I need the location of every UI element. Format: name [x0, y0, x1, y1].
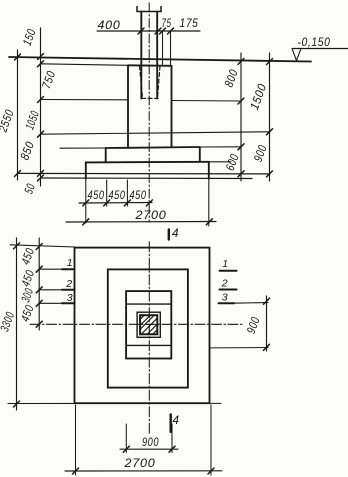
svg-text:1: 1	[222, 258, 229, 270]
extension slab edge down	[85, 179, 87, 223]
2700 dimension line (elevation)	[66, 221, 216, 224]
svg-text:150: 150	[20, 27, 39, 48]
hatching	[141, 316, 144, 319]
svg-text:4: 4	[172, 226, 179, 240]
svg-text:450: 450	[88, 188, 105, 202]
svg-text:900: 900	[251, 143, 270, 164]
plan bottom extension line	[8, 402, 221, 404]
svg-text:600: 600	[223, 152, 242, 173]
extension step2 edge down	[106, 180, 108, 206]
pocket rectangle (plan)	[137, 312, 160, 337]
svg-text:2: 2	[65, 278, 73, 290]
leader line pos 1 left	[39, 268, 62, 270]
plan horizontal axis	[30, 323, 243, 325]
step2 top extension left	[60, 147, 106, 149]
slab right edge	[208, 162, 210, 179]
step2 top extension right	[200, 146, 241, 148]
ground line	[9, 57, 311, 62]
svg-text:1500: 1500	[247, 82, 269, 112]
svg-text:450: 450	[18, 246, 37, 267]
leader line pos 3 right / 900 top extension	[219, 302, 235, 304]
svg-text:3: 3	[67, 292, 74, 304]
svg-text:175: 175	[180, 16, 199, 30]
pedestal right edge	[171, 66, 173, 147]
svg-text:850: 850	[17, 139, 37, 162]
step2 top edge	[106, 147, 200, 148]
leader line pos 3 left	[39, 302, 62, 304]
pocket bottom (dashed)	[142, 97, 159, 99]
svg-text:400: 400	[98, 18, 121, 32]
svg-text:450: 450	[130, 188, 147, 202]
svg-text:900: 900	[142, 435, 159, 449]
svg-text:450: 450	[109, 188, 126, 202]
pocket bottom extension line left	[41, 99, 129, 101]
bedding bottom line	[41, 177, 253, 180]
extension line pedestal edge under 175	[170, 31, 172, 66]
svg-text:2700: 2700	[123, 456, 155, 470]
plan outer rectangle (slab 2700x3300)	[75, 248, 210, 404]
900 right dim bottom extension	[210, 347, 269, 349]
foundation top line	[41, 64, 129, 66]
svg-text:2550: 2550	[0, 107, 17, 134]
900 bottom dimension line	[120, 448, 178, 450]
svg-text:3: 3	[222, 292, 229, 304]
column shaft	[140, 12, 142, 99]
svg-text:1050: 1050	[22, 109, 42, 132]
slab top edge	[86, 161, 209, 164]
left inner dim chain 150/750/1050/850/50	[40, 28, 42, 186]
extension pedestal edge down	[126, 180, 128, 206]
column cross-section hatched square	[140, 315, 157, 334]
2700 bottom dim extensions	[75, 405, 77, 475]
svg-text:900: 900	[244, 315, 263, 336]
svg-text:4: 4	[172, 413, 179, 427]
plan left inner chain 450/450/300/450	[38, 238, 40, 330]
pocket hidden wall right (dashed)	[158, 66, 161, 98]
svg-text:2: 2	[221, 278, 229, 290]
svg-text:450: 450	[18, 303, 37, 324]
extension line pocket wall left of 175	[162, 31, 164, 66]
step2 left edge	[105, 148, 107, 162]
right outer dim chain 1500/900	[269, 53, 271, 181]
svg-text:300: 300	[18, 286, 36, 304]
leader line pos 2 left	[39, 289, 62, 291]
svg-text:50: 50	[21, 182, 38, 196]
svg-text:2700: 2700	[134, 208, 166, 222]
column break line	[137, 7, 161, 12]
svg-text:-0,150: -0,150	[298, 35, 331, 49]
plan vertical axis / section line 4-4	[148, 242, 150, 435]
centerline column axis (elevation)	[148, 3, 150, 222]
dimension line 400/75/175	[97, 30, 200, 32]
svg-text:3300: 3300	[0, 310, 17, 334]
900 right dimension line	[266, 296, 268, 351]
plan pedestal rectangle	[126, 291, 171, 358]
plan top extension line	[10, 245, 75, 247]
900 bottom dim extensions	[125, 424, 127, 453]
slab top extension right	[209, 161, 231, 163]
pocket opening bottom edge (plan)	[126, 344, 171, 346]
svg-text:75: 75	[162, 16, 172, 30]
slab bottom line with extensions	[18, 172, 270, 175]
450x3 dimension line	[79, 202, 152, 205]
long extension line mid (1500/900/850 level)	[41, 132, 270, 134]
step2 right edge	[199, 147, 201, 162]
pocket opening top edge (plan)	[126, 303, 171, 305]
pocket hidden wall left (dashed)	[140, 66, 143, 98]
svg-text:750: 750	[39, 69, 58, 91]
left outer dim chain 2550	[17, 50, 19, 180]
2700 bottom dimension line	[65, 470, 222, 472]
pedestal left edge	[127, 65, 129, 148]
section mark 4 (bottom)	[169, 415, 171, 432]
plan 3300 chain	[16, 238, 18, 410]
svg-text:1: 1	[67, 257, 74, 269]
leader line pos 2 right	[220, 289, 237, 291]
right inner dim chain 800/600	[240, 53, 242, 181]
leader line pos 1 right	[220, 270, 237, 272]
extension slab right edge down	[208, 179, 210, 226]
svg-text:800: 800	[222, 67, 241, 89]
level mark -0,150	[293, 48, 348, 50]
slab left edge	[85, 162, 87, 178]
section mark 4 (top)	[168, 230, 170, 240]
pocket bottom extension line right	[172, 100, 242, 103]
svg-text:450: 450	[18, 268, 37, 289]
plan second rectangle (step)	[108, 269, 188, 387]
